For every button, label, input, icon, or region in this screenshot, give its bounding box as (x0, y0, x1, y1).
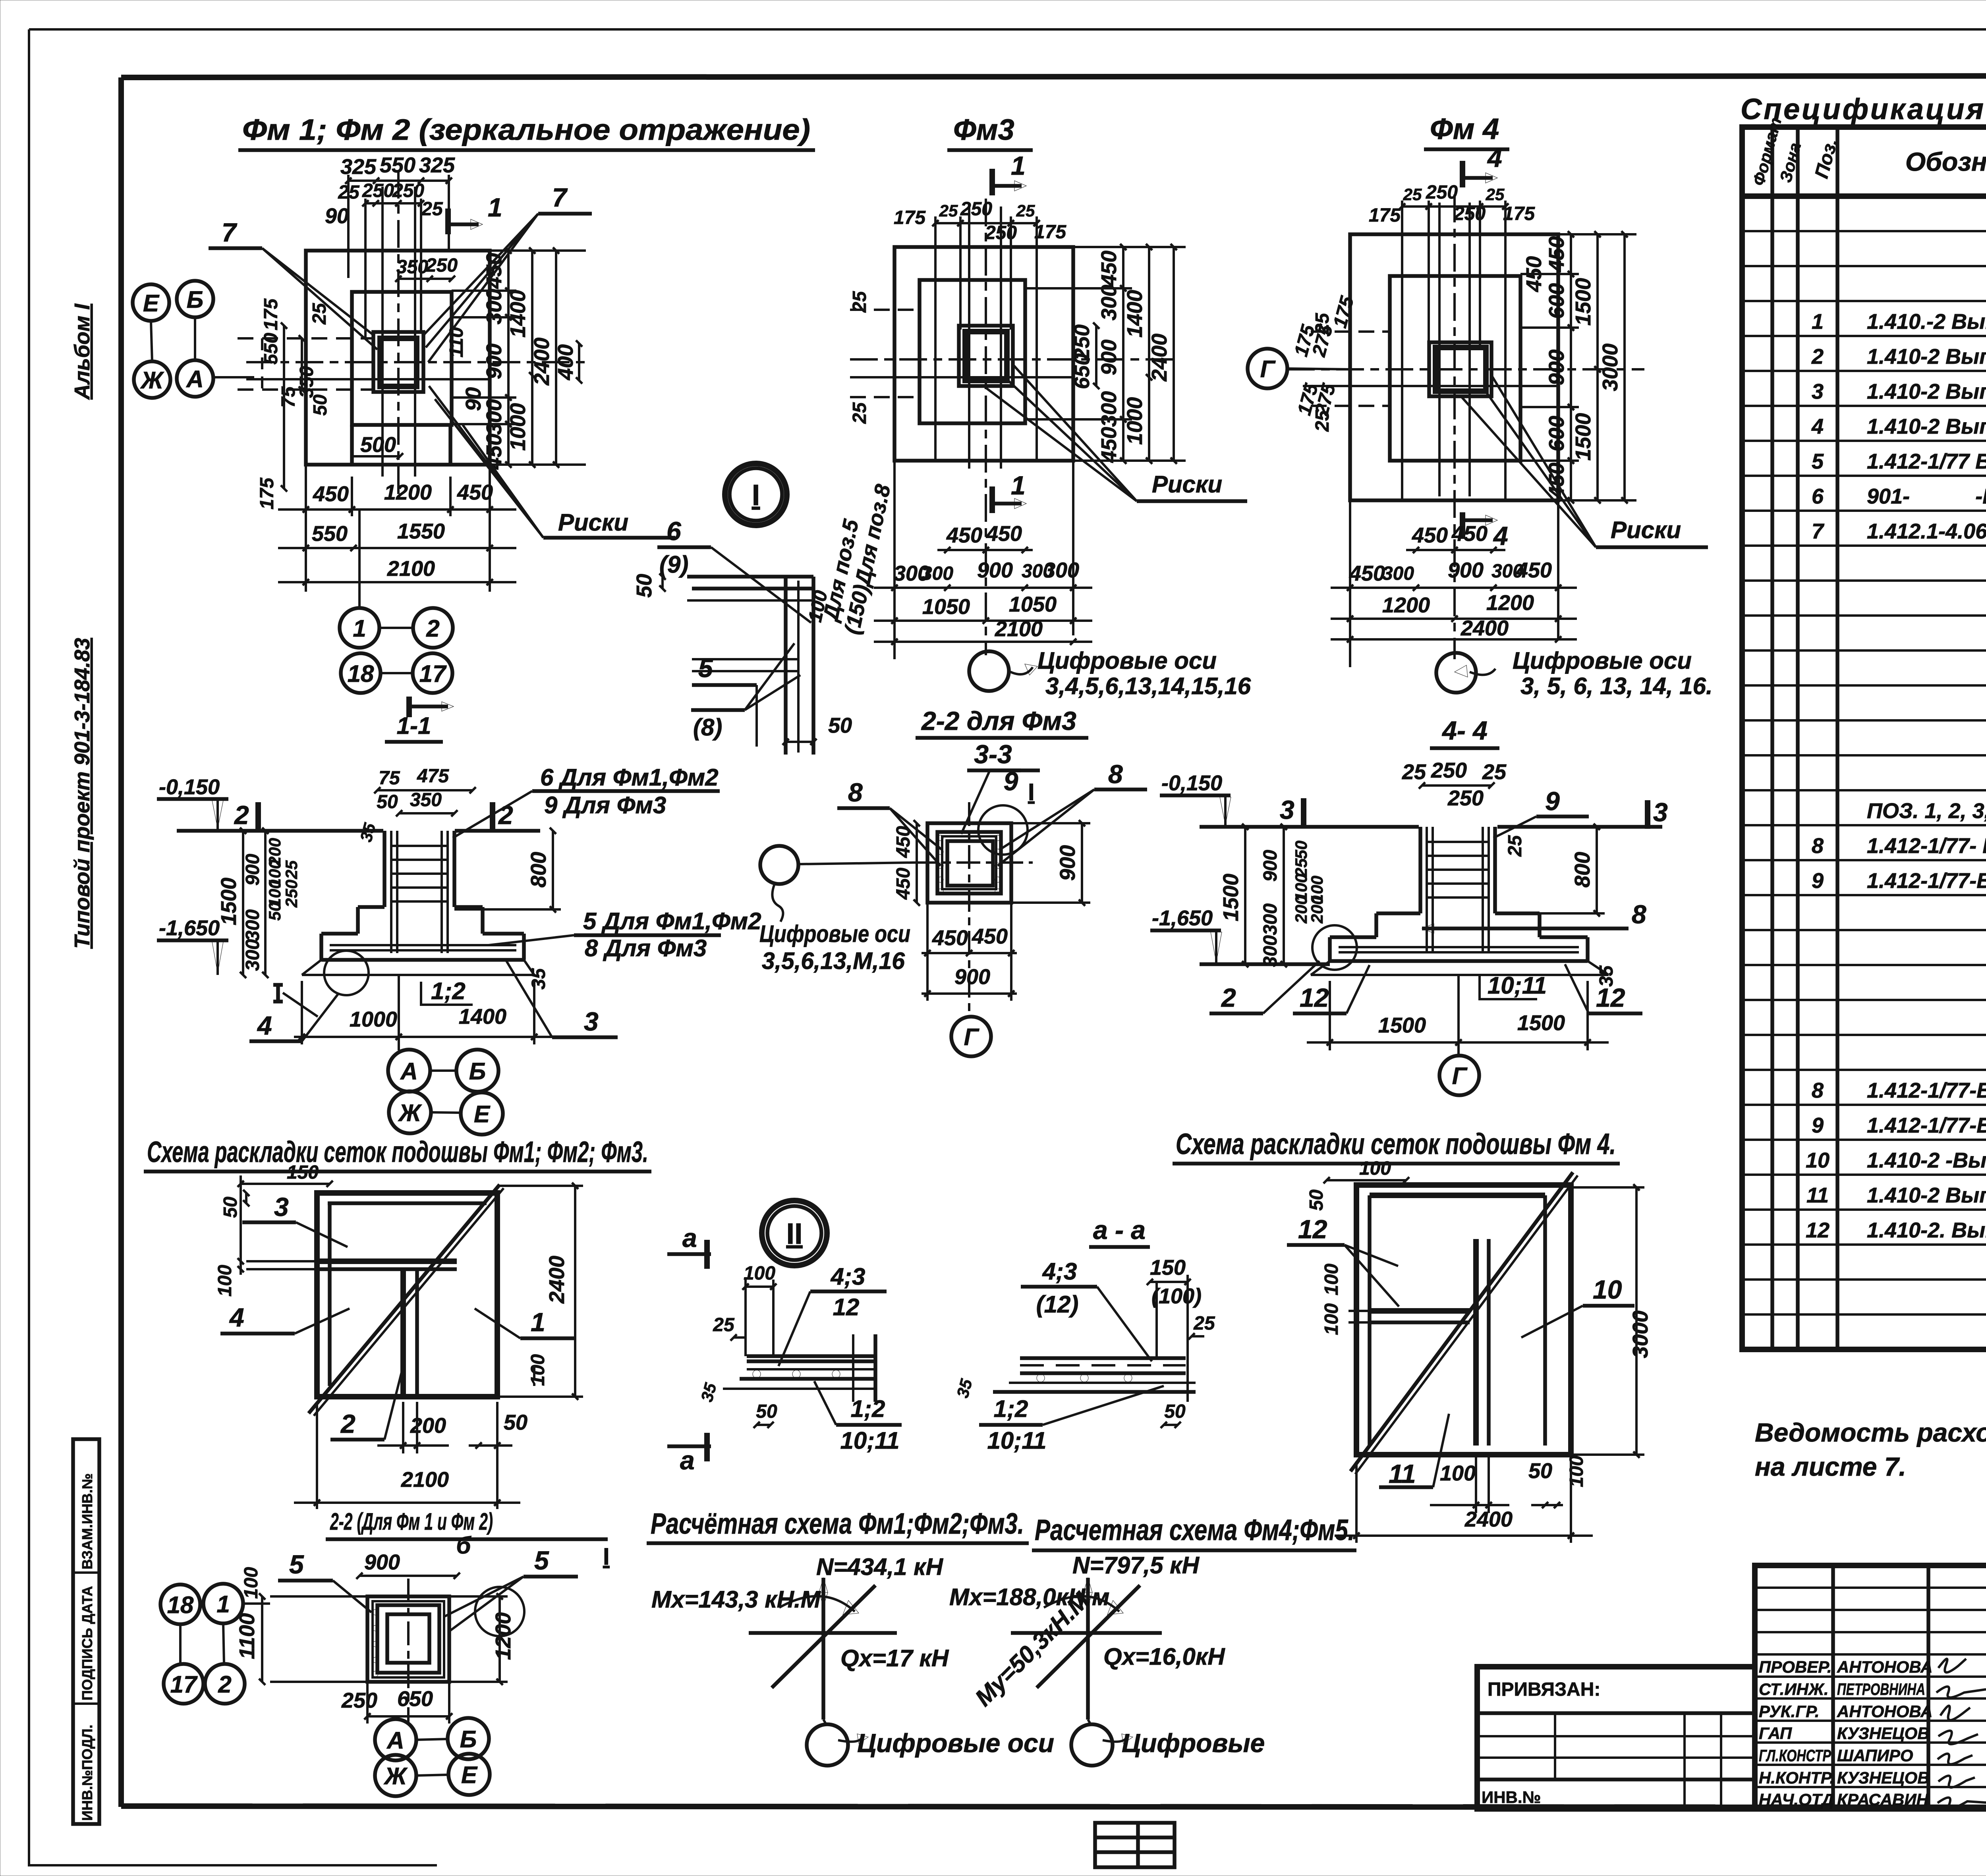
svg-text:6: 6 (1812, 484, 1824, 508)
svg-text:5: 5 (698, 653, 713, 683)
slab lines (1020, 1356, 1186, 1360)
svg-text:1-1: 1-1 (397, 712, 431, 739)
signature squiggles (1936, 1659, 1986, 1808)
svg-text:4: 4 (1487, 143, 1502, 172)
svg-text:12: 12 (1806, 1218, 1830, 1242)
title block (1755, 1565, 1986, 1809)
svg-text:Ж: Ж (140, 367, 164, 394)
svg-text:250: 250 (1426, 182, 1458, 203)
svg-text:100: 100 (1566, 1455, 1587, 1487)
svg-text:1: 1 (1812, 310, 1824, 334)
svg-text:17: 17 (170, 1671, 198, 1698)
svg-text:4: 4 (229, 1303, 244, 1332)
svg-text:1.412-1/77-В.3-020: 1.412-1/77-В.3-020 (1867, 1114, 1986, 1137)
svg-text:Mx=143,3 кН.М: Mx=143,3 кН.М (651, 1586, 821, 1613)
svg-text:25: 25 (421, 199, 443, 220)
step (358, 905, 384, 909)
svg-text:150: 150 (287, 1162, 319, 1183)
svg-text:Н.КОНТР.: Н.КОНТР. (1759, 1768, 1834, 1787)
svg-text:900: 900 (977, 558, 1013, 582)
svg-text:25: 25 (939, 201, 958, 220)
svg-text:1200: 1200 (1382, 593, 1430, 617)
section mark 4 above (1460, 161, 1465, 187)
square (317, 1193, 497, 1397)
svg-text:1;2: 1;2 (431, 978, 466, 1004)
svg-text:50: 50 (632, 574, 656, 598)
svg-text:I: I (1028, 779, 1035, 805)
svg-text:900: 900 (1448, 558, 1484, 582)
A B ZH E circles (375, 1719, 416, 1760)
svg-text:Фм 1; Фм 2 (зеркальное отражен: Фм 1; Фм 2 (зеркальное отражение) (242, 113, 810, 146)
svg-text:a - a: a - a (1093, 1215, 1146, 1245)
svg-text:9: 9 (1545, 786, 1560, 816)
svg-text:325: 325 (340, 155, 377, 179)
svg-text:1: 1 (531, 1307, 545, 1337)
II mark + 4 label (273, 985, 283, 1002)
svg-text:a: a (680, 1446, 695, 1475)
svg-text:1.410-2 -Вып.1: 1.410-2 -Вып.1 (1867, 1148, 1986, 1172)
diagram 1 (749, 1631, 897, 1635)
svg-text:100: 100 (1321, 1264, 1342, 1295)
svg-text:1050: 1050 (1009, 593, 1057, 616)
specification table (1741, 93, 1986, 1349)
svg-text:1: 1 (1011, 471, 1026, 500)
pier (1418, 827, 1422, 913)
svg-text:I: I (603, 1543, 610, 1570)
section mark 4 below (1460, 512, 1465, 539)
svg-text:18: 18 (348, 660, 374, 687)
bottom bed lines (302, 974, 534, 976)
G circle (1439, 1056, 1479, 1095)
svg-text:2100: 2100 (387, 557, 435, 581)
svg-text:Цифровые оси: Цифровые оси (857, 1728, 1054, 1758)
svg-text:Типовой проект 901-3-184.83: Типовой проект 901-3-184.83 (70, 638, 94, 949)
svg-text:450: 450 (1097, 427, 1121, 463)
squares (894, 247, 1073, 461)
right dims (1570, 234, 1572, 500)
svg-text:10;11: 10;11 (1488, 972, 1547, 999)
svg-text:2400: 2400 (1148, 334, 1171, 382)
extension verticals for top dims (347, 175, 350, 278)
svg-text:25: 25 (1016, 201, 1035, 220)
svg-text:Расчетная схема Фм4;Фм5.: Расчетная схема Фм4;Фм5. (1035, 1513, 1354, 1546)
diagonal (309, 1185, 500, 1413)
svg-text:1.412-1/77-В.3-020: 1.412-1/77-В.3-020 (1867, 869, 1986, 893)
svg-text:600: 600 (1545, 283, 1569, 319)
svg-text:А: А (400, 1058, 417, 1085)
svg-text:350: 350 (296, 366, 317, 398)
svg-text:25: 25 (1486, 185, 1505, 204)
svg-text:450: 450 (1545, 236, 1569, 272)
svg-text:АНТОНОВА: АНТОНОВА (1837, 1702, 1933, 1721)
svg-text:1.410-2 Вып.1: 1.410-2 Вып.1 (1867, 380, 1986, 403)
right dim 800 (552, 831, 554, 909)
pier (383, 831, 386, 907)
left dims (1244, 827, 1246, 964)
detail II circle on slab edge (324, 951, 369, 995)
svg-text:Риски: Риски (558, 509, 628, 536)
svg-text:А: А (386, 1727, 404, 1754)
digital axes circle (760, 846, 798, 884)
svg-text:800: 800 (1571, 852, 1594, 888)
svg-text:3,5,6,13,М,16: 3,5,6,13,М,16 (762, 948, 905, 974)
svg-text:ПРИВЯЗАН:: ПРИВЯЗАН: (1488, 1679, 1600, 1700)
diagonal (1350, 1172, 1573, 1471)
svg-text:2100: 2100 (401, 1468, 449, 1492)
svg-text:ПРОВЕР.: ПРОВЕР. (1759, 1658, 1832, 1676)
svg-text:12: 12 (1300, 983, 1329, 1012)
svg-text:450: 450 (986, 522, 1022, 546)
svg-text:25: 25 (1505, 835, 1526, 857)
svg-text:11: 11 (1806, 1183, 1829, 1207)
svg-text:4: 4 (1493, 521, 1508, 550)
bottom dims (305, 465, 307, 592)
dims (916, 823, 918, 903)
section 1-1 sub label (406, 697, 412, 717)
inner double lines (317, 1258, 457, 1264)
axis circles (388, 1050, 430, 1092)
svg-text:300: 300 (1097, 285, 1121, 320)
svg-text:1500: 1500 (1378, 1013, 1426, 1037)
svg-text:10;11: 10;11 (840, 1427, 899, 1454)
svg-text:50: 50 (1306, 1189, 1327, 1211)
section mark 1 below (989, 486, 995, 513)
svg-text:900: 900 (242, 854, 263, 886)
rebar dots (938, 835, 1001, 894)
left axis circles (133, 284, 169, 321)
svg-text:18: 18 (167, 1592, 194, 1618)
svg-text:2400: 2400 (1461, 616, 1509, 640)
svg-text:450: 450 (1097, 251, 1121, 287)
svg-text:б: б (456, 1532, 471, 1559)
svg-text:Цифровые оси: Цифровые оси (1037, 647, 1217, 674)
svg-text:ПОЗ. 1, 2, 3, 4: ПОЗ. 1, 2, 3, 4 (1867, 799, 1986, 823)
svg-text:1.410-2 Вып.1: 1.410-2 Вып.1 (1867, 1183, 1986, 1207)
svg-text:90: 90 (462, 387, 485, 411)
svg-text:Е: Е (143, 290, 160, 317)
svg-text:300: 300 (242, 939, 263, 971)
svg-text:300: 300 (1260, 935, 1281, 967)
svg-text:1.410.-2 Вып.1: 1.410.-2 Вып.1 (1867, 310, 1986, 334)
svg-text:35: 35 (1596, 965, 1617, 987)
svg-text:1400: 1400 (506, 290, 530, 338)
slab (321, 932, 358, 936)
svg-text:3: 3 (274, 1192, 289, 1222)
svg-text:5: 5 (289, 1550, 304, 1579)
signature table columns (1831, 1565, 1835, 1809)
svg-text:50: 50 (377, 791, 398, 813)
svg-text:I: I (752, 479, 760, 511)
svg-text:Г: Г (1452, 1063, 1468, 1089)
axis circles 18 1 / 17 2 (160, 1585, 200, 1624)
svg-text:550: 550 (261, 333, 282, 365)
axis circle with note (969, 651, 1009, 691)
svg-text:150: 150 (1150, 1256, 1186, 1280)
svg-text:9: 9 (1812, 1114, 1824, 1137)
3 marks (1301, 798, 1306, 827)
svg-text:350: 350 (396, 257, 428, 278)
svg-text:1500: 1500 (1517, 1011, 1565, 1035)
svg-text:450: 450 (893, 826, 914, 858)
svg-text:1100: 1100 (235, 1613, 259, 1659)
svg-text:900: 900 (1260, 850, 1281, 882)
9 leader (961, 770, 990, 834)
svg-text:50: 50 (828, 714, 852, 737)
detail circle left slab (1312, 925, 1357, 970)
svg-text:II: II (786, 1217, 802, 1250)
svg-text:25: 25 (849, 402, 870, 424)
svg-text:1.410-2. Вып.1: 1.410-2. Вып.1 (1867, 1218, 1986, 1242)
svg-text:900: 900 (954, 965, 990, 989)
svg-text:Схема раскладки сеток подошвы: Схема раскладки сеток подошвы Фм 4. (1176, 1127, 1616, 1160)
row texts (1806, 203, 1986, 1347)
svg-text:2400: 2400 (530, 338, 554, 386)
svg-text:50: 50 (504, 1411, 527, 1434)
svg-text:3, 5, 6, 13, 14, 16.: 3, 5, 6, 13, 14, 16. (1520, 673, 1713, 699)
svg-text:1.410-2 Вып.1: 1.410-2 Вып.1 (1867, 415, 1986, 438)
svg-text:300: 300 (242, 909, 263, 941)
svg-text:175: 175 (261, 298, 282, 330)
privyazan block (1477, 1667, 1755, 1809)
svg-text:300: 300 (1382, 563, 1414, 584)
svg-text:300: 300 (1260, 903, 1281, 935)
svg-text:3,4,5,6,13,14,15,16: 3,4,5,6,13,14,15,16 (1045, 673, 1251, 699)
svg-text:200: 200 (410, 1414, 446, 1438)
svg-text:12: 12 (833, 1294, 860, 1320)
svg-text:12: 12 (1596, 983, 1625, 1012)
svg-text:2-2 для Фм3: 2-2 для Фм3 (921, 706, 1076, 735)
svg-text:1000: 1000 (1123, 397, 1147, 445)
rebar circles (753, 1370, 840, 1378)
svg-text:4- 4: 4- 4 (1441, 716, 1488, 745)
svg-text:90: 90 (325, 204, 349, 228)
svg-text:75: 75 (379, 768, 400, 789)
svg-text:Цифровые оси: Цифровые оси (1513, 647, 1692, 674)
svg-text:10: 10 (1593, 1275, 1622, 1304)
svg-text:на листе 7.: на листе 7. (1755, 1452, 1906, 1481)
svg-text:175: 175 (1329, 293, 1358, 330)
svg-text:1.412-1/77- В. 3- 100: 1.412-1/77- В. 3- 100 (1867, 834, 1986, 858)
svg-text:8 Для Фм3: 8 Для Фм3 (585, 935, 707, 961)
svg-text:Альбом I: Альбом I (70, 303, 94, 400)
centerline (407, 1579, 410, 1724)
svg-text:800: 800 (527, 852, 551, 888)
svg-text:Расчётная схема Фм1;Фм2;Фм3.: Расчётная схема Фм1;Фм2;Фм3. (651, 1507, 1024, 1540)
svg-text:25: 25 (713, 1314, 735, 1336)
svg-text:5: 5 (1812, 450, 1824, 473)
centrelines (397, 171, 400, 494)
svg-text:250: 250 (1447, 786, 1484, 810)
svg-text:ГЛ.КОНСТР: ГЛ.КОНСТР (1759, 1746, 1831, 1765)
svg-text:8: 8 (1632, 899, 1646, 929)
svg-text:Б: Б (460, 1726, 477, 1752)
svg-text:1: 1 (1011, 151, 1026, 180)
svg-text:АНТОНОВА: АНТОНОВА (1837, 1658, 1933, 1676)
svg-text:4;3: 4;3 (831, 1263, 865, 1290)
svg-text:1200: 1200 (384, 481, 432, 504)
svg-text:1050: 1050 (922, 595, 970, 619)
svg-text:Б: Б (469, 1058, 486, 1085)
svg-text:100: 100 (1321, 1303, 1342, 1335)
right dims (1095, 326, 1097, 386)
svg-text:Цифровые: Цифровые (1122, 1728, 1265, 1758)
svg-text:100: 100 (1359, 1158, 1391, 1179)
svg-text:Ведомость расхода стали на эле: Ведомость расхода стали на элемент смотр… (1755, 1418, 1986, 1447)
svg-text:50: 50 (265, 902, 284, 921)
svg-text:1500: 1500 (1571, 413, 1595, 461)
svg-text:475: 475 (417, 766, 449, 787)
svg-text:450: 450 (1516, 558, 1552, 582)
svg-text:100: 100 (241, 1567, 262, 1599)
svg-text:11: 11 (1389, 1459, 1416, 1488)
inv box (73, 1439, 99, 1824)
svg-text:3-3: 3-3 (974, 739, 1012, 769)
svg-text:СТ.ИНЖ.: СТ.ИНЖ. (1759, 1680, 1829, 1698)
svg-text:ШАПИРО: ШАПИРО (1837, 1746, 1913, 1765)
svg-text:3: 3 (1653, 797, 1668, 827)
svg-text:1.410-2 Вып.1: 1.410-2 Вып.1 (1867, 345, 1986, 369)
svg-text:ПОДПИСЬ ДАТА: ПОДПИСЬ ДАТА (79, 1586, 95, 1700)
svg-text:-0,150: -0,150 (1161, 771, 1222, 795)
svg-text:3: 3 (584, 1007, 599, 1036)
row lines (1742, 231, 1986, 1314)
svg-text:900: 900 (364, 1550, 400, 1574)
svg-text:2: 2 (234, 800, 249, 830)
svg-text:450: 450 (1412, 523, 1448, 547)
centrelines (968, 802, 970, 1017)
svg-text:250: 250 (362, 180, 394, 201)
svg-text:Зона: Зона (1776, 141, 1804, 184)
svg-text:5: 5 (534, 1546, 549, 1575)
svg-text:8: 8 (1812, 1079, 1824, 1102)
svg-text:450: 450 (946, 523, 982, 547)
svg-text:N=797,5 кН: N=797,5 кН (1072, 1552, 1200, 1579)
slab lines (747, 1354, 875, 1358)
svg-text:900: 900 (1097, 340, 1121, 375)
svg-text:1;2: 1;2 (851, 1395, 885, 1422)
svg-text:7: 7 (222, 218, 238, 247)
svg-text:Е: Е (474, 1101, 491, 1127)
svg-text:КРАСАВИН: КРАСАВИН (1837, 1790, 1929, 1809)
svg-text:100: 100 (1440, 1461, 1476, 1485)
svg-text:100: 100 (527, 1354, 549, 1386)
svg-text:1: 1 (488, 193, 502, 222)
svg-text:Схема раскладки сеток подошвы: Схема раскладки сеток подошвы Фм1; Фм2; … (147, 1135, 648, 1168)
svg-text:4;3: 4;3 (1042, 1258, 1077, 1285)
svg-text:9 Для Фм3: 9 Для Фм3 (544, 792, 666, 818)
svg-text:1200: 1200 (1486, 591, 1534, 615)
svg-text:450: 450 (1451, 522, 1488, 546)
section mark 1 above (989, 169, 995, 195)
svg-text:Г: Г (964, 1024, 980, 1050)
svg-text:600: 600 (1545, 416, 1569, 452)
svg-text:5 Для Фм1,Фм2: 5 Для Фм1,Фм2 (583, 908, 761, 934)
svg-text:1550: 1550 (397, 519, 445, 543)
svg-text:175: 175 (1369, 205, 1401, 226)
svg-text:300: 300 (1043, 558, 1079, 582)
svg-text:450: 450 (932, 926, 968, 950)
rebar mesh in pier (330, 831, 516, 953)
svg-text:650: 650 (1070, 353, 1094, 389)
svg-text:НАЧ.ОТД: НАЧ.ОТД (1759, 1790, 1834, 1809)
svg-text:3000: 3000 (1629, 1310, 1652, 1358)
dashed lines to left (238, 337, 373, 340)
svg-text:1000: 1000 (350, 1007, 397, 1031)
axis circle (1436, 653, 1476, 693)
rebar (1339, 827, 1579, 953)
svg-text:100: 100 (214, 1265, 236, 1297)
svg-text:100: 100 (744, 1263, 775, 1284)
left axis circle leader line (798, 863, 914, 864)
svg-text:10: 10 (1806, 1148, 1830, 1172)
svg-text:450: 450 (972, 924, 1008, 948)
svg-text:175: 175 (1034, 222, 1066, 243)
bottom dims (1349, 500, 1351, 667)
svg-text:8: 8 (1108, 759, 1123, 789)
svg-text:35: 35 (356, 821, 379, 844)
svg-text:35: 35 (528, 968, 549, 990)
svg-text:17: 17 (419, 660, 447, 687)
svg-text:4: 4 (1811, 415, 1824, 438)
svg-text:КУЗНЕЦОВ: КУЗНЕЦОВ (1837, 1724, 1930, 1743)
slab outer square (306, 251, 490, 465)
svg-text:12: 12 (1298, 1214, 1327, 1244)
svg-text:900: 900 (1545, 349, 1569, 385)
svg-text:50: 50 (756, 1401, 777, 1422)
svg-text:300: 300 (482, 399, 506, 435)
svg-text:2-2 (Для Фм 1 и Фм 2): 2-2 (Для Фм 1 и Фм 2) (330, 1508, 493, 1535)
svg-text:-1,650: -1,650 (159, 916, 220, 940)
svg-text:1.412.1-4.060: 1.412.1-4.060 (1867, 519, 1986, 543)
svg-text:250: 250 (960, 199, 992, 220)
svg-text:1500: 1500 (217, 878, 241, 925)
rebar dots (373, 1610, 378, 1677)
svg-text:50: 50 (1528, 1459, 1552, 1483)
svg-text:1: 1 (216, 1591, 230, 1617)
note text under table (1755, 1418, 1986, 1481)
ground/top line (177, 829, 383, 833)
centrelines (985, 199, 987, 655)
svg-text:450: 450 (893, 868, 914, 900)
svg-text:500: 500 (360, 433, 396, 457)
left margin vertical captions (70, 303, 99, 1824)
svg-text:1;2: 1;2 (994, 1395, 1028, 1422)
svg-text:901- -КЖИ.101.01: 901- -КЖИ.101.01 (1867, 484, 1986, 508)
middle square (352, 292, 452, 425)
svg-text:Риски: Риски (1611, 517, 1681, 543)
svg-text:Цифровые оси: Цифровые оси (759, 921, 910, 947)
svg-text:50: 50 (310, 394, 331, 416)
column section (373, 332, 423, 392)
svg-text:2100: 2100 (995, 617, 1043, 641)
svg-text:1400: 1400 (1123, 290, 1147, 338)
svg-text:175: 175 (257, 477, 278, 510)
svg-text:25: 25 (282, 860, 301, 879)
svg-text:300: 300 (1097, 391, 1121, 427)
svg-text:Обозначение: Обозначение (1905, 147, 1986, 176)
svg-text:25: 25 (309, 303, 330, 325)
horizontal extension lines right (490, 249, 586, 252)
svg-text:1000: 1000 (506, 403, 530, 451)
svg-text:250: 250 (985, 222, 1017, 243)
svg-text:25: 25 (1402, 760, 1426, 784)
svg-text:Ж: Ж (398, 1100, 422, 1126)
svg-text:25: 25 (1482, 760, 1507, 784)
svg-text:3: 3 (1280, 795, 1294, 824)
G circle (951, 1017, 991, 1056)
svg-text:325: 325 (419, 153, 455, 177)
svg-text:2: 2 (340, 1409, 355, 1438)
